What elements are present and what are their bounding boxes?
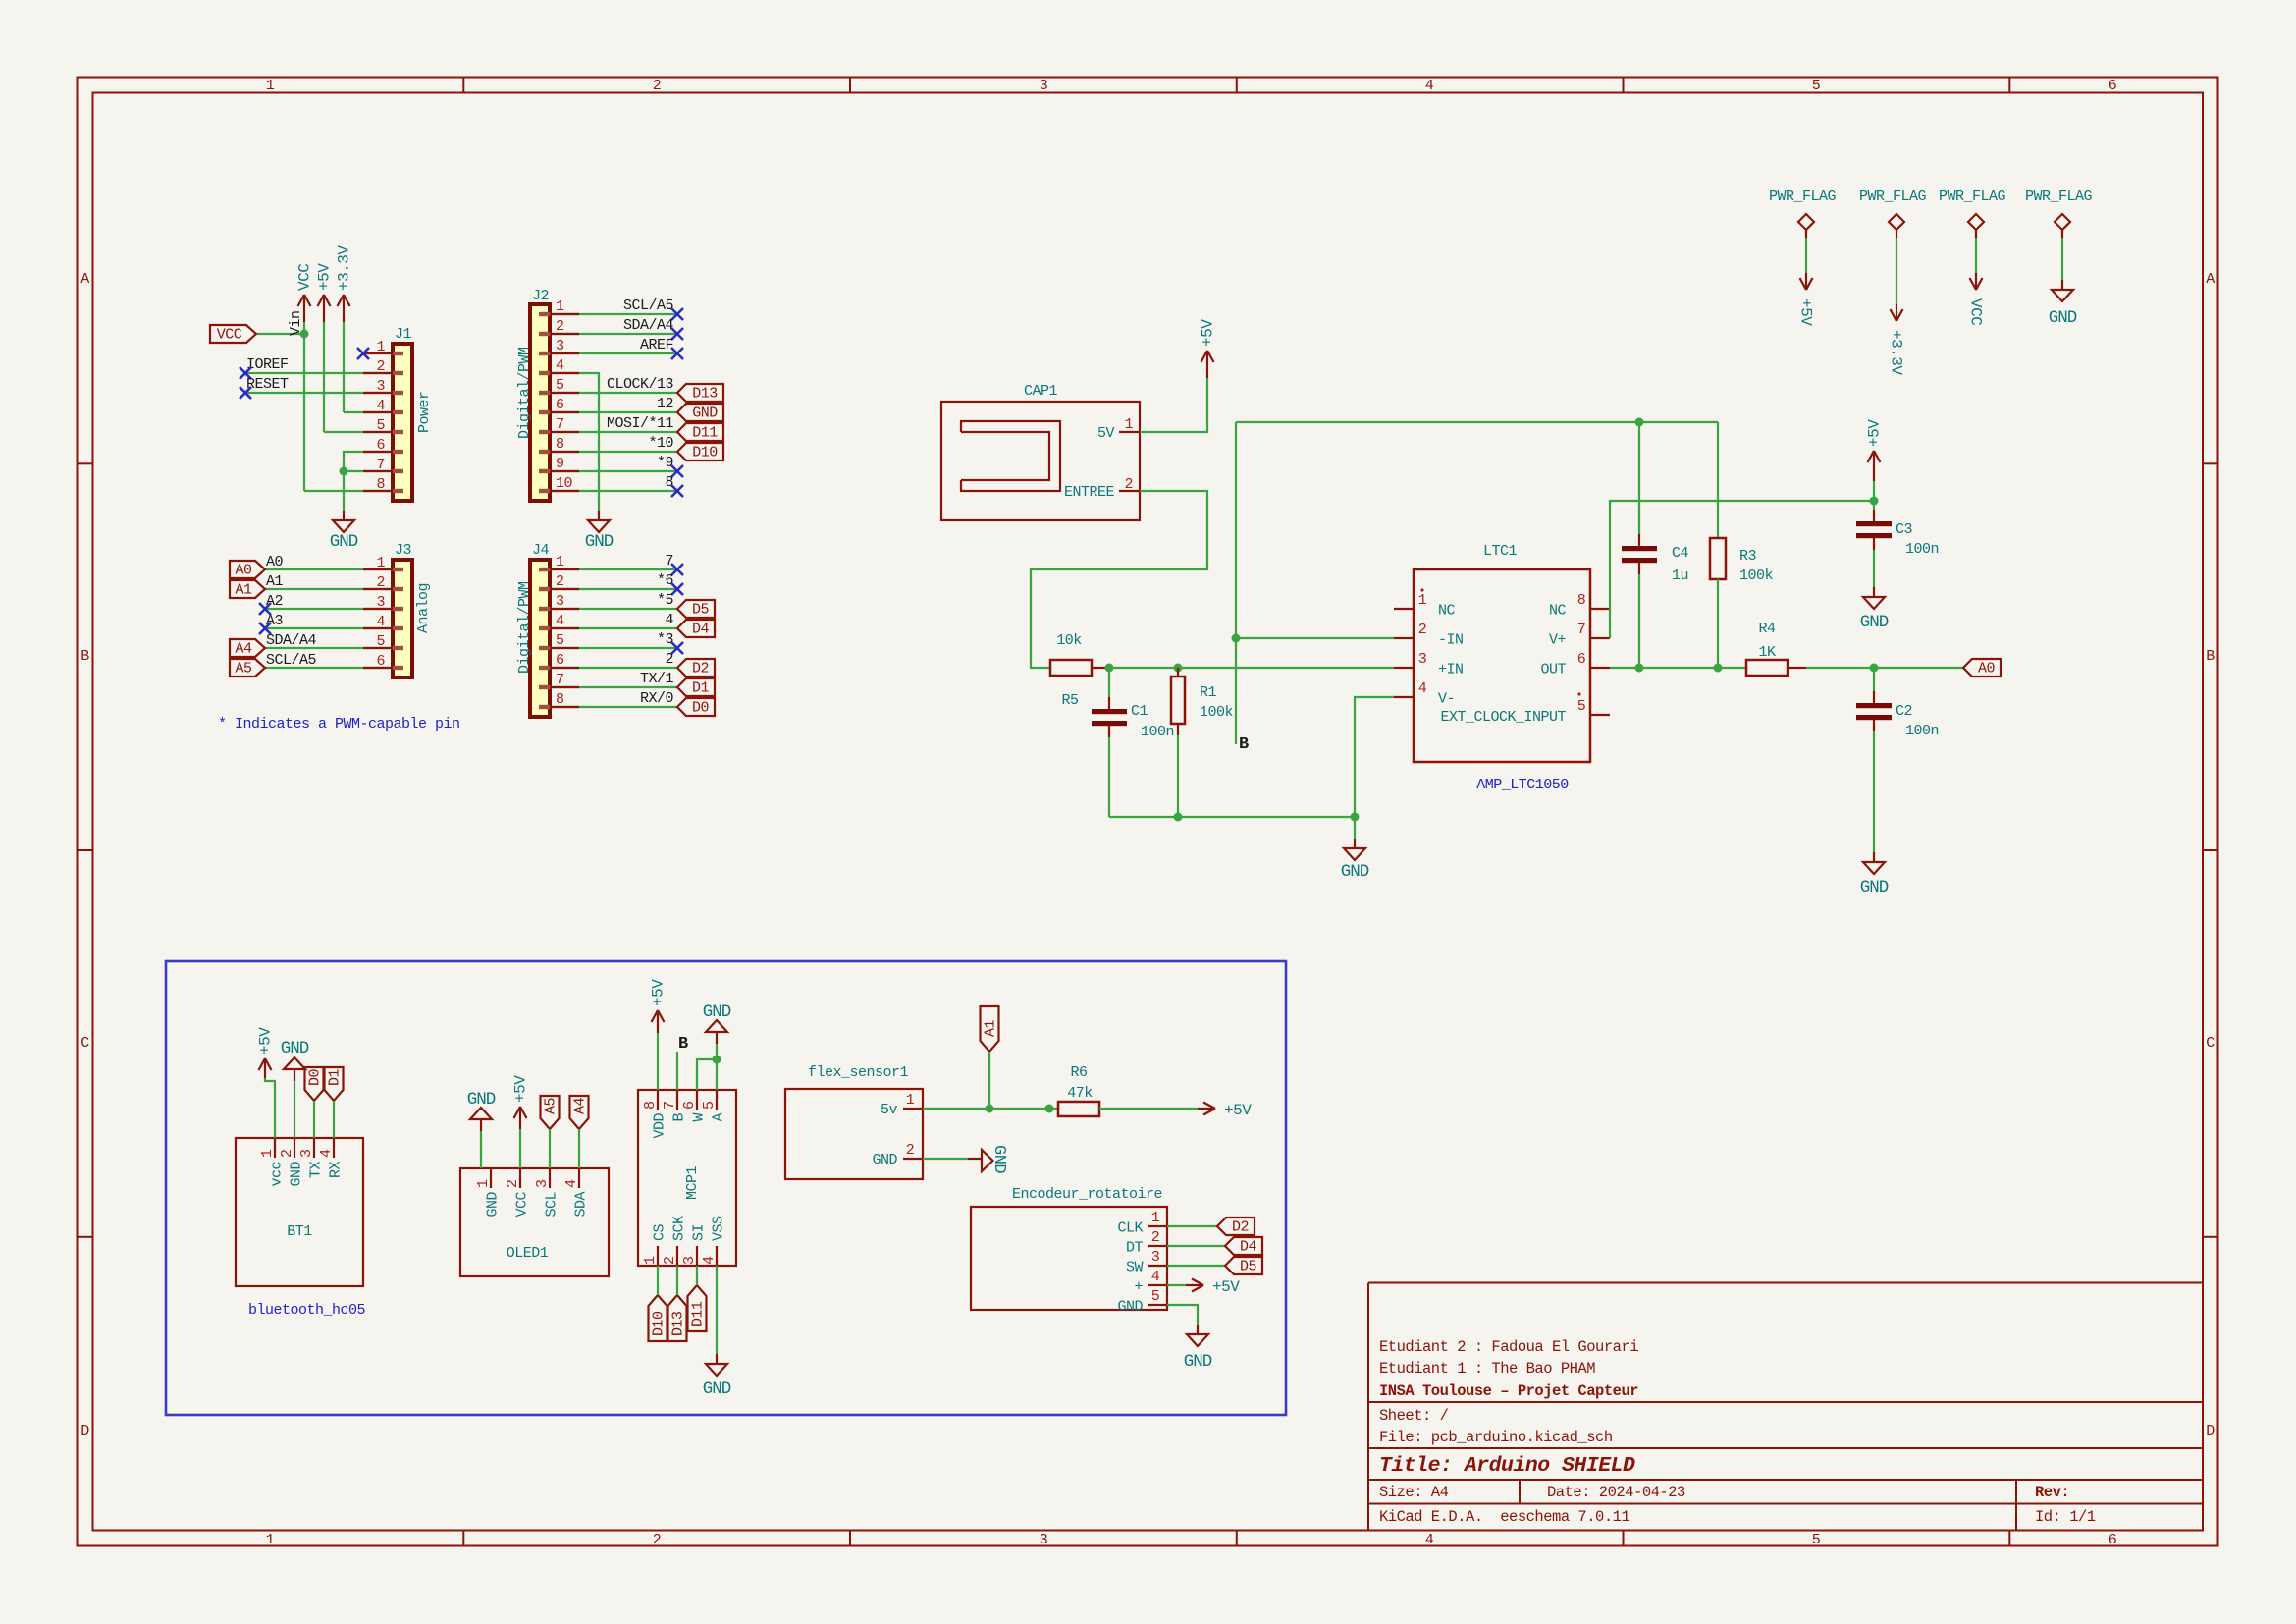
svg-text:RESET: RESET <box>246 376 289 393</box>
svg-text:KiCad E.D.A. eeschema 7.0.11: KiCad E.D.A. eeschema 7.0.11 <box>1379 1508 1629 1526</box>
LTC1 pin 5 EXT_CLOCK_INPUT <box>1590 714 1610 716</box>
power symbol +5V (MCP1) <box>657 1010 659 1033</box>
LTC1 left pins <box>1394 608 1414 610</box>
hierarchical tag A1 <box>230 580 265 598</box>
svg-text:3: 3 <box>556 338 564 354</box>
svg-text:OUT: OUT <box>1540 662 1566 678</box>
svg-text:+5V: +5V <box>1200 319 1217 347</box>
svg-text:8: 8 <box>556 436 564 453</box>
no-connect <box>671 485 683 497</box>
svg-text:2: 2 <box>1418 622 1427 638</box>
junction V- node <box>1351 813 1360 822</box>
wire J4 pin y=660 <box>550 647 677 649</box>
junction C3 top <box>1870 497 1879 506</box>
wire A5 to SCL <box>549 1129 551 1168</box>
svg-text:3: 3 <box>681 1256 698 1265</box>
svg-text:A5: A5 <box>543 1097 560 1114</box>
svg-text:A1: A1 <box>266 573 284 590</box>
junction top rail C4 <box>1635 418 1644 427</box>
wire ENTREE to R5 <box>1031 491 1207 668</box>
svg-text:DT: DT <box>1126 1240 1144 1257</box>
module Encodeur_rotatoire body <box>971 1207 1167 1310</box>
svg-text:SCL: SCL <box>544 1192 561 1218</box>
svg-text:1u: 1u <box>1672 568 1688 584</box>
svg-text:Etudiant 1 : The Bao PHAM: Etudiant 1 : The Bao PHAM <box>1379 1360 1595 1378</box>
svg-text:A0: A0 <box>235 563 252 579</box>
wire +5V to OLED1 pin2 <box>519 1129 521 1168</box>
svg-text:A: A <box>2206 271 2215 288</box>
ground symbol below J2 <box>598 511 600 520</box>
wire SCK to D13 <box>676 1266 678 1295</box>
junction R6 left <box>1045 1105 1054 1113</box>
LTC1 right pins <box>1590 608 1610 610</box>
power symbol +5V (J1) <box>323 295 325 322</box>
svg-text:R6: R6 <box>1070 1064 1088 1081</box>
svg-text:3: 3 <box>1040 78 1048 94</box>
wire R6 to +5V <box>1099 1108 1198 1110</box>
wire CS to D10 <box>657 1266 659 1295</box>
svg-text:1K: 1K <box>1758 644 1776 661</box>
svg-text:B: B <box>2206 648 2215 665</box>
svg-text:C1: C1 <box>1131 703 1148 720</box>
wire pin8 horizontal <box>304 490 393 492</box>
svg-text:W: W <box>691 1113 708 1122</box>
pin numbers J4 <box>556 554 564 708</box>
svg-text:7: 7 <box>665 553 673 569</box>
svg-text:D: D <box>80 1423 89 1439</box>
wire net B to MCP1 pin7 <box>676 1052 678 1090</box>
svg-text:5V: 5V <box>1097 425 1115 442</box>
svg-text:GND: GND <box>289 1162 305 1187</box>
J1 pin lines <box>363 373 393 491</box>
svg-text:J2: J2 <box>532 288 549 304</box>
wire W jog to A <box>697 1059 717 1090</box>
hierarchical tag D1 (BT1 RX) <box>325 1067 344 1101</box>
svg-text:6: 6 <box>2109 1532 2117 1548</box>
svg-text:3: 3 <box>298 1149 315 1158</box>
junction R1 top <box>1174 664 1183 673</box>
svg-text:Size: A4: Size: A4 <box>1379 1484 1449 1501</box>
encoder pins <box>1148 1225 1167 1227</box>
hierarchical tag A0 output <box>1963 659 2001 677</box>
svg-text:10: 10 <box>556 475 573 492</box>
svg-text:4: 4 <box>318 1149 335 1158</box>
svg-text:*6: *6 <box>657 572 674 589</box>
svg-text:2: 2 <box>665 651 673 668</box>
wire + to +5V <box>1167 1284 1186 1286</box>
hierarchical tag A5 (OLED1 SCL) <box>541 1096 560 1129</box>
svg-text:+5V: +5V <box>1797 298 1815 326</box>
wire J1 pin7 <box>344 470 393 472</box>
capacitor C3 <box>1873 501 1875 510</box>
svg-text:+5V: +5V <box>512 1075 530 1103</box>
wire J2 pin y=420 <box>550 411 677 413</box>
J3 pin lines <box>363 569 393 668</box>
hierarchical tag A0 <box>230 561 265 578</box>
svg-text:1: 1 <box>376 339 385 355</box>
svg-text:5: 5 <box>556 632 564 649</box>
svg-text:6: 6 <box>2109 78 2117 94</box>
module OLED1 body <box>460 1168 609 1276</box>
svg-text:1: 1 <box>556 554 564 570</box>
wire J3 pin y=600 <box>265 588 393 590</box>
junction C2 top <box>1870 664 1879 673</box>
resistor R5 <box>1050 660 1092 676</box>
svg-text:GND: GND <box>330 532 358 552</box>
hierarchical tag D0 <box>677 698 715 716</box>
hierarchical tag D11 <box>677 423 723 441</box>
svg-text:R5: R5 <box>1061 692 1079 709</box>
module BT1 body <box>236 1138 363 1286</box>
svg-text:+5V: +5V <box>1224 1102 1252 1119</box>
junction R1 bottom <box>1174 813 1183 822</box>
svg-text:V-: V- <box>1438 691 1455 708</box>
pin numbers J2 <box>556 298 573 492</box>
svg-text:Etudiant 2 : Fadoua El Gourari: Etudiant 2 : Fadoua El Gourari <box>1379 1338 1638 1356</box>
svg-text:CAP1: CAP1 <box>1024 383 1058 400</box>
wire GND to OLED1 pin1 <box>480 1131 482 1168</box>
ground symbol below J1 <box>343 511 345 520</box>
svg-text:+5V: +5V <box>316 263 334 291</box>
wire D1 to RX <box>333 1101 335 1138</box>
wire encoder GND <box>1167 1305 1198 1325</box>
BT1 pins <box>274 1138 276 1158</box>
svg-text:+5V: +5V <box>257 1027 275 1055</box>
wire V- up <box>1355 697 1394 817</box>
sensor flex_sensor1 body <box>785 1089 923 1179</box>
no-connect <box>671 465 683 477</box>
svg-text:VCC: VCC <box>217 327 242 344</box>
svg-text:1: 1 <box>266 78 275 94</box>
svg-text:+: + <box>1134 1279 1143 1296</box>
svg-text:4: 4 <box>701 1256 718 1265</box>
hierarchical tag D2 (CLK) <box>1217 1218 1255 1235</box>
connector J4 body <box>530 560 550 717</box>
svg-text:J3: J3 <box>395 542 412 559</box>
hierarchical tag D10 <box>677 443 723 460</box>
svg-text:R3: R3 <box>1739 548 1757 565</box>
hierarchical tag D10 (CS) <box>649 1295 667 1341</box>
svg-text:+IN: +IN <box>1438 662 1464 678</box>
connector J1 body <box>393 344 412 501</box>
svg-text:A3: A3 <box>266 613 284 629</box>
svg-text:SI: SI <box>691 1224 708 1241</box>
wire J4 pin y=720 <box>550 706 677 708</box>
wire V+ to +5V rail <box>1610 501 1874 638</box>
svg-text:J4: J4 <box>532 542 550 559</box>
svg-text:2: 2 <box>505 1179 521 1188</box>
wire J3 pin y=580 <box>265 568 393 570</box>
svg-text:A2: A2 <box>266 593 283 610</box>
svg-text:RX: RX <box>328 1162 345 1179</box>
svg-text:47k: 47k <box>1067 1085 1093 1102</box>
wire CLK to D2 <box>1167 1225 1217 1227</box>
svg-text:2: 2 <box>556 573 564 590</box>
wire J2 pin y=320 <box>550 313 677 315</box>
ground symbol below C3 <box>1873 587 1875 597</box>
wire SI to D11 <box>696 1266 698 1285</box>
ground symbol below encoder <box>1197 1325 1199 1334</box>
svg-text:vcc: vcc <box>269 1162 286 1187</box>
svg-text:4: 4 <box>1418 680 1427 697</box>
svg-text:4: 4 <box>556 357 564 374</box>
svg-text:INSA Toulouse – Projet Capteur: INSA Toulouse – Projet Capteur <box>1379 1382 1638 1400</box>
no-connect <box>671 583 683 595</box>
resistor R4 <box>1746 660 1788 676</box>
svg-text:1: 1 <box>906 1092 915 1109</box>
svg-text:ENTREE: ENTREE <box>1064 484 1115 501</box>
svg-text:bluetooth_hc05: bluetooth_hc05 <box>248 1302 366 1319</box>
power symbol VCC (flag) <box>1975 273 1977 290</box>
svg-text:GND: GND <box>872 1152 897 1168</box>
svg-text:2: 2 <box>1151 1229 1160 1246</box>
power symbol +3.3V (J1) <box>343 295 345 322</box>
digipot MCP1 body <box>638 1090 736 1266</box>
power symbol VCC <box>303 295 305 322</box>
svg-text:2: 2 <box>653 1532 662 1548</box>
svg-text:A1: A1 <box>983 1019 999 1037</box>
wire VCC tag to Vin node <box>257 333 304 335</box>
svg-text:8: 8 <box>665 474 673 491</box>
svg-text:D10: D10 <box>651 1311 667 1336</box>
svg-text:8: 8 <box>642 1101 659 1110</box>
svg-text:C4: C4 <box>1672 545 1689 562</box>
svg-text:CS: CS <box>652 1223 668 1241</box>
wire R4 to A0 tag <box>1806 667 1963 669</box>
hierarchical tag D13 <box>677 384 723 402</box>
svg-text:GND: GND <box>467 1090 496 1110</box>
svg-text:5: 5 <box>701 1101 718 1110</box>
svg-text:Analog: Analog <box>415 583 432 633</box>
wire J3 pin y=680 <box>265 667 393 669</box>
connector J2 body <box>530 304 550 501</box>
svg-text:Digital/PWM: Digital/PWM <box>516 347 533 439</box>
svg-text:flex_sensor1: flex_sensor1 <box>808 1064 909 1081</box>
svg-text:GND: GND <box>1860 613 1889 632</box>
svg-text:*9: *9 <box>657 455 673 471</box>
svg-text:1: 1 <box>259 1149 276 1158</box>
power symbol +5V (flag) <box>1805 273 1807 290</box>
junction A1 node <box>986 1105 994 1113</box>
wire +5V to VDD <box>657 1033 659 1090</box>
connector J3 body <box>393 560 412 677</box>
no-connect <box>671 348 683 359</box>
svg-text:SCL/A5: SCL/A5 <box>623 298 674 314</box>
svg-text:VCC: VCC <box>514 1192 531 1218</box>
svg-text:RX/0: RX/0 <box>640 690 674 707</box>
hierarchical tag D4 <box>677 620 715 637</box>
power symbol +5V (BT1) <box>264 1058 266 1078</box>
svg-text:+5V: +5V <box>1212 1278 1240 1296</box>
junction J1 pin7 GND node <box>340 467 348 476</box>
svg-text:C2: C2 <box>1896 703 1912 720</box>
svg-text:9: 9 <box>556 456 564 472</box>
hierarchical tag D1 <box>677 678 715 696</box>
svg-text:File: pcb_arduino.kicad_sch: File: pcb_arduino.kicad_sch <box>1379 1429 1613 1446</box>
wire top rail y=430 <box>1236 421 1718 423</box>
no-connect <box>259 623 271 634</box>
hierarchical tag A5 <box>230 659 265 677</box>
svg-text:5: 5 <box>1812 1532 1821 1548</box>
ground symbol (BT1) flipped <box>294 1069 295 1081</box>
svg-text:* Indicates a PWM-capable pin: * Indicates a PWM-capable pin <box>218 716 460 732</box>
svg-text:8: 8 <box>1577 592 1586 609</box>
svg-text:GND: GND <box>989 1145 1008 1173</box>
wire flex 5v to R6 <box>923 1108 1058 1110</box>
wire J2 pin y=480 <box>550 470 677 472</box>
svg-text:IOREF: IOREF <box>246 356 289 373</box>
wire flex GND <box>923 1158 968 1160</box>
svg-text:SDA/A4: SDA/A4 <box>623 317 674 334</box>
OLED1 pins <box>490 1168 492 1188</box>
svg-text:B: B <box>678 1035 688 1054</box>
svg-text:100n: 100n <box>1905 541 1939 558</box>
svg-text:D13: D13 <box>670 1311 687 1336</box>
svg-text:C: C <box>80 1035 89 1052</box>
svg-text:1: 1 <box>1418 592 1427 609</box>
svg-text:GND: GND <box>485 1192 502 1218</box>
hierarchical tag D2 <box>677 659 715 677</box>
wire DT to D4 <box>1167 1245 1225 1247</box>
svg-text:D11: D11 <box>690 1301 707 1326</box>
ground symbol below C2 <box>1873 852 1875 862</box>
junction Vin/VCC <box>300 330 309 339</box>
svg-text:4: 4 <box>1425 1532 1434 1548</box>
wire GND to A pin <box>716 1044 718 1090</box>
ground symbol below LTC1 <box>1354 839 1356 848</box>
hierarchical label VCC <box>210 325 256 343</box>
wire J2 pin y=460 <box>550 451 677 453</box>
svg-text:1: 1 <box>266 1532 275 1548</box>
svg-text:AREF: AREF <box>640 337 673 353</box>
svg-text:4: 4 <box>1151 1269 1160 1285</box>
wire bottom rail to V- <box>1109 816 1355 818</box>
wire VCC vertical to J1 pin8 <box>303 334 305 491</box>
wire J3 pin y=640 <box>265 627 393 629</box>
wire OUT rail <box>1610 667 1746 669</box>
svg-text:3: 3 <box>534 1179 551 1188</box>
wire J2 pin y=500 <box>550 490 677 492</box>
svg-text:4: 4 <box>563 1179 580 1188</box>
net B vertical wire <box>1235 422 1237 744</box>
svg-text:A0: A0 <box>266 554 284 570</box>
svg-text:J1: J1 <box>395 326 412 343</box>
ground symbol (flag) <box>2061 280 2063 290</box>
svg-text:PWR_FLAG: PWR_FLAG <box>1939 189 2006 205</box>
svg-text:Title: Arduino SHIELD: Title: Arduino SHIELD <box>1379 1454 1635 1478</box>
svg-text:6: 6 <box>681 1101 698 1110</box>
svg-text:GND: GND <box>1341 862 1369 882</box>
wire J4 pin y=600 <box>550 588 677 590</box>
svg-text:2: 2 <box>906 1142 915 1159</box>
svg-text:3: 3 <box>1151 1249 1160 1266</box>
no-connect J1 pin1 <box>363 352 393 354</box>
hierarchical tag A1 <box>981 1006 999 1052</box>
sensor CAP1 body <box>941 402 1140 520</box>
svg-text:*10: *10 <box>648 435 673 452</box>
svg-text:D13: D13 <box>692 386 718 403</box>
svg-text:BT1: BT1 <box>287 1223 312 1240</box>
svg-text:100k: 100k <box>1739 568 1774 584</box>
svg-text:C: C <box>2206 1035 2215 1052</box>
svg-text:CLK: CLK <box>1117 1220 1143 1237</box>
svg-text:GND: GND <box>1117 1299 1143 1316</box>
svg-text:D4: D4 <box>692 622 710 638</box>
svg-text:TX: TX <box>308 1162 325 1179</box>
svg-text:D0: D0 <box>307 1068 324 1086</box>
svg-text:SCK: SCK <box>671 1216 688 1241</box>
svg-text:TX/1: TX/1 <box>640 671 674 687</box>
blue group rectangle <box>166 961 1286 1415</box>
CAP1 pin 1 (5V) <box>1119 431 1140 433</box>
svg-text:VCC: VCC <box>1967 298 1985 325</box>
svg-text:NC: NC <box>1438 603 1456 620</box>
svg-text:4: 4 <box>556 613 564 629</box>
MCP1 bottom pins <box>657 1246 659 1266</box>
no-connect <box>671 328 683 340</box>
wire A1 down <box>988 1052 990 1109</box>
no-connect <box>671 308 683 320</box>
svg-text:100n: 100n <box>1141 724 1174 740</box>
svg-text:4: 4 <box>665 612 673 628</box>
no-connect <box>259 603 271 615</box>
power symbol +5V above CAP1 <box>1206 351 1208 378</box>
svg-text:D2: D2 <box>692 661 709 677</box>
svg-text:3: 3 <box>1040 1532 1048 1548</box>
svg-text:LTC1: LTC1 <box>1483 543 1518 560</box>
hierarchical tag D0 (BT1 TX) <box>305 1067 324 1101</box>
svg-text:A: A <box>711 1113 727 1122</box>
svg-text:5: 5 <box>1151 1288 1160 1305</box>
svg-text:C3: C3 <box>1896 521 1913 538</box>
svg-text:5: 5 <box>1812 78 1821 94</box>
svg-text:2: 2 <box>1124 476 1133 493</box>
wire J4 pin y=580 <box>550 568 677 570</box>
pin numbers J1 <box>376 339 385 493</box>
svg-text:100n: 100n <box>1905 723 1939 739</box>
svg-text:8: 8 <box>556 691 564 708</box>
wire J2 pin y=380 <box>550 373 599 511</box>
wire J1 pin6 jog <box>344 452 393 471</box>
svg-text:1: 1 <box>1151 1210 1160 1226</box>
svg-text:Rev:: Rev: <box>2035 1484 2069 1501</box>
svg-text:1: 1 <box>556 298 564 315</box>
J2 pin lines <box>550 314 579 491</box>
wire VSS down <box>716 1266 718 1354</box>
wire J2 pin y=360 <box>550 352 677 354</box>
svg-text:B: B <box>671 1113 688 1122</box>
wire J4 pin y=620 <box>550 608 677 610</box>
title block frame <box>1368 1283 2203 1531</box>
svg-text:B: B <box>1239 735 1249 754</box>
svg-text:A5: A5 <box>235 661 252 677</box>
svg-text:GND: GND <box>281 1039 309 1058</box>
flex pin 1 (5v) <box>903 1108 923 1110</box>
svg-text:B: B <box>80 648 89 665</box>
svg-text:2: 2 <box>662 1256 678 1265</box>
svg-text:+5V: +5V <box>1866 419 1884 447</box>
svg-text:3: 3 <box>1418 651 1427 668</box>
wire +IN rail <box>1109 667 1394 669</box>
svg-text:MCP1: MCP1 <box>684 1165 701 1200</box>
svg-text:+3.3V: +3.3V <box>336 245 353 291</box>
svg-text:12: 12 <box>657 396 673 412</box>
resistor R1 <box>1177 668 1179 677</box>
svg-text:Encodeur_rotatoire: Encodeur_rotatoire <box>1012 1186 1163 1203</box>
junction -IN <box>1232 634 1241 643</box>
pin numbers J3 <box>376 555 385 670</box>
svg-text:5: 5 <box>556 377 564 394</box>
